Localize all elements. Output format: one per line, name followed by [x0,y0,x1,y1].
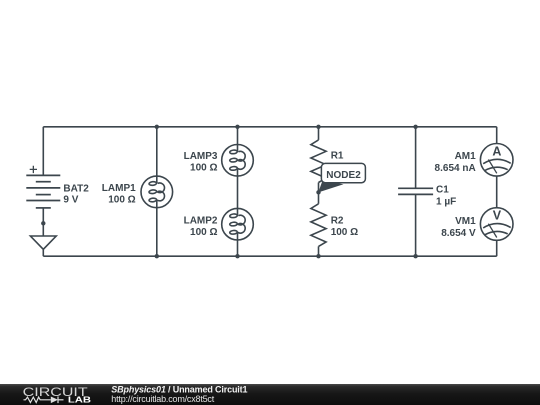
wire R1 bottom node2 R2 top [318,183,320,204]
wire C1 top [415,127,417,189]
svg-text:R1: R1 [331,151,344,162]
wire R1 top [318,127,320,140]
wire lamp3 top [237,127,239,145]
svg-text:9 V: 9 V [63,195,78,206]
svg-text:A: A [492,144,501,158]
junction bottom rail lamp2 [235,254,239,258]
svg-text:SBphysics01 / Unnamed Circuit1: SBphysics01 / Unnamed Circuit1 [111,385,247,395]
junction bottom rail R2 [316,254,320,258]
wire battery bottom to ground [42,208,44,236]
svg-text:LAMP2: LAMP2 [184,215,218,226]
wire ground stub [42,249,44,256]
node NODE2 callout pointer [318,181,343,193]
voltmeter VM1 [480,208,513,241]
footer bar [0,384,540,405]
lamp LAMP2 [222,208,254,240]
junction bottom rail lamp1 [155,254,159,258]
svg-text:NODE2: NODE2 [326,170,361,181]
lamp LAMP3 [222,145,254,177]
junction top rail C1 [413,125,417,129]
wire VM1 bottom [496,241,498,256]
lamp LAMP1 [141,176,173,208]
wire AM1 top [496,127,498,144]
ammeter AM1 [480,144,513,177]
wire AM1-VM1 [496,176,498,207]
wire lamp1 bottom [156,208,158,257]
wire bottom rail [43,255,496,257]
svg-text:8.654 V: 8.654 V [441,228,476,239]
svg-text:http://circuitlab.com/cx8t5ct: http://circuitlab.com/cx8t5ct [111,394,214,404]
wire lamp2 bottom [237,240,239,256]
wire battery top [42,127,44,176]
svg-text:100 Ω: 100 Ω [190,227,217,238]
junction bottom rail C1 [413,254,417,258]
wire lamp1 top [156,127,158,176]
resistor R1 [311,140,326,183]
node NODE2 callout box [321,163,365,182]
svg-text:LAB: LAB [68,396,91,405]
wire R2 bottom [318,246,320,256]
junction battery-ground [41,221,45,225]
svg-text:1 µF: 1 µF [436,196,456,207]
capacitor C1 [398,188,433,194]
svg-text:100 Ω: 100 Ω [190,163,217,174]
svg-text:100 Ω: 100 Ω [108,195,135,206]
svg-text:VM1: VM1 [455,216,476,227]
wire top rail [43,126,496,128]
node NODE2 junction [316,190,320,194]
svg-text:100 Ω: 100 Ω [331,227,358,238]
svg-text:C1: C1 [436,184,449,195]
logo wire-resistor-diode [24,397,64,404]
battery BAT2 [26,166,60,208]
svg-text:LAMP1: LAMP1 [102,183,136,194]
wire C1 bottom [415,194,417,256]
svg-text:8.654 nA: 8.654 nA [435,163,476,174]
junction top rail lamp3 [235,125,239,129]
svg-text:BAT2: BAT2 [63,183,89,194]
wire lamp3-lamp2 [237,176,239,209]
svg-text:AM1: AM1 [455,151,477,162]
svg-text:R2: R2 [331,215,344,226]
svg-text:LAMP3: LAMP3 [184,151,218,162]
ground [30,236,56,249]
resistor R2 [311,204,326,247]
svg-text:V: V [493,209,502,223]
junction top rail R1 [316,125,320,129]
junction top rail lamp1 [155,125,159,129]
